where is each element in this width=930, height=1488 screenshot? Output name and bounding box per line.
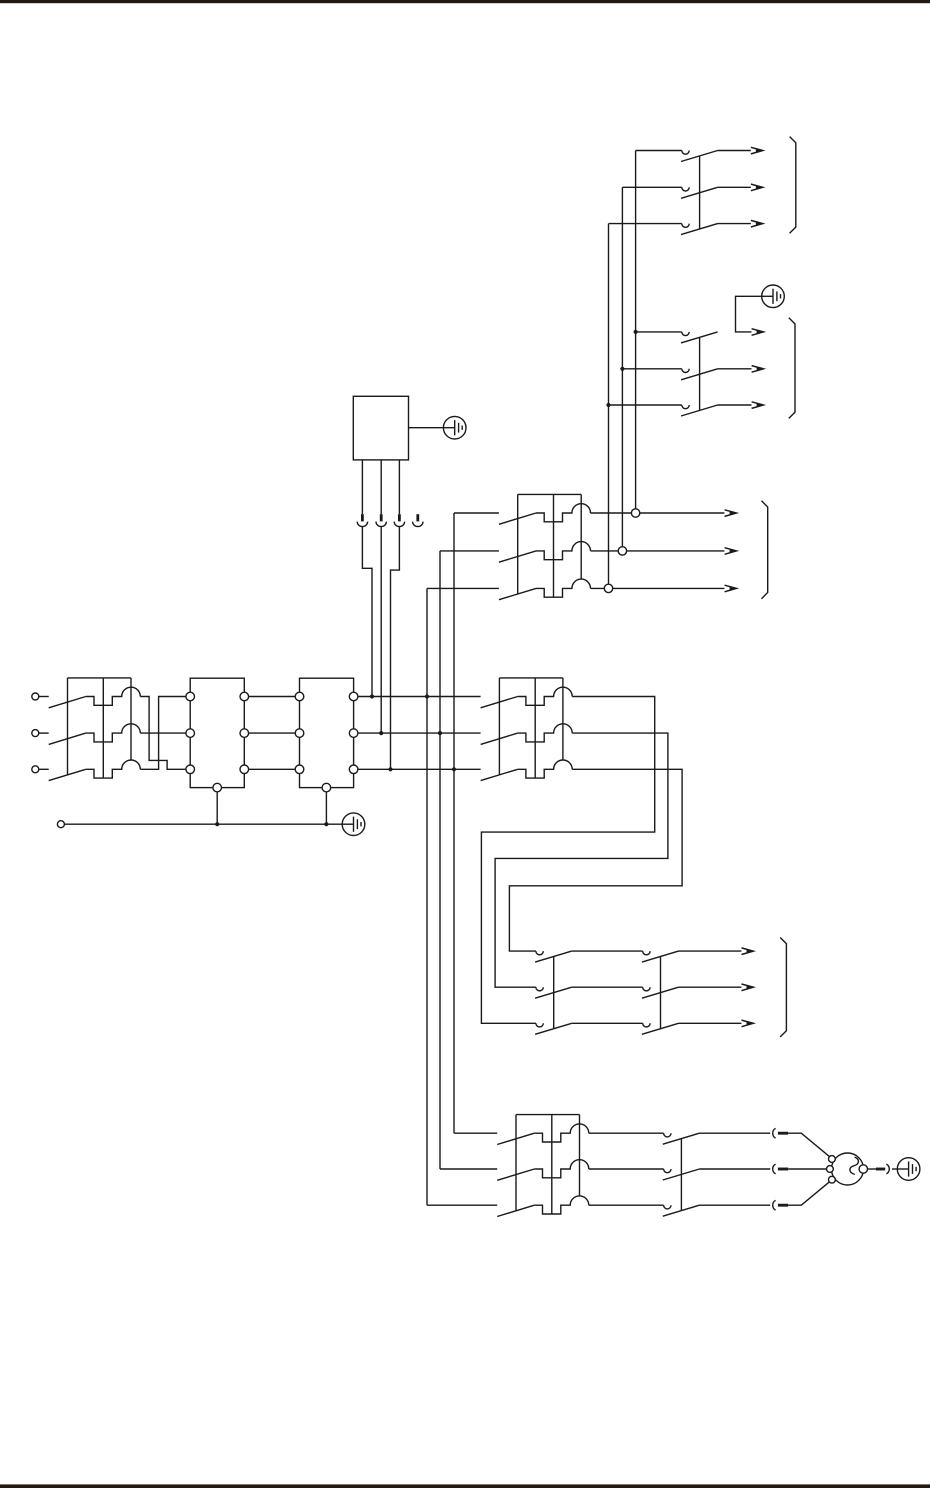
wire bus to S2 row 3	[609, 404, 682, 406]
wire Q1 pole3 to Z1 row1	[140, 697, 186, 770]
filter block Z2 body	[300, 678, 354, 787]
arrow S3 row 3	[742, 1020, 754, 1027]
filter Z2 left pin 2	[295, 729, 304, 738]
junction bus B / row2	[438, 731, 442, 735]
arrow F1 row 2	[725, 548, 737, 555]
connector X2 pin 3	[773, 1200, 788, 1210]
junction row2 / X1	[379, 731, 383, 735]
wire bus to S1 row 2	[622, 186, 681, 188]
fused switch F2 pole 2	[481, 724, 573, 745]
bracket feeder group 1	[790, 137, 796, 234]
motor M1 body	[832, 1153, 864, 1185]
fused switch F3 frame	[516, 1115, 580, 1214]
junction row3 / X1	[388, 767, 392, 771]
blade S2 row 1	[681, 332, 718, 343]
arrow S1 row 2	[751, 184, 763, 191]
fused switch F1 frame	[518, 494, 582, 597]
filter Z1 ground pin	[213, 783, 222, 792]
filter Z1 left pin 3	[186, 765, 195, 774]
wire S1 output row 2	[718, 186, 751, 188]
wire S3a to S3b row 1	[572, 950, 643, 952]
arrow S3 row 2	[742, 984, 754, 991]
contact S4 row 1	[664, 1133, 671, 1137]
junction bus C / row3	[452, 767, 456, 771]
fused switch F3 pole 1	[497, 1124, 589, 1145]
wire S1 output row 1	[718, 150, 751, 152]
motor M1 terminal U	[829, 1156, 836, 1163]
circuit breaker Q1 pole 2	[49, 724, 141, 745]
wire connector to motor W	[788, 1182, 829, 1206]
filter Z1 left pin 2	[186, 729, 195, 738]
node circle F1 row 1	[631, 509, 639, 517]
blade S4 row 2	[663, 1169, 700, 1180]
bus 2 vertical	[621, 187, 623, 546]
junction bus A / row1	[425, 694, 429, 698]
wire Z1 to Z2 row 1	[249, 696, 296, 698]
wire bus A to F1 row3	[427, 587, 499, 589]
bus A vertical	[426, 588, 428, 1205]
filter Z2 right pin 1	[349, 692, 358, 701]
connector X1 pin 4	[413, 514, 423, 526]
wire bus to S1 row 1	[636, 150, 682, 152]
wire bus C to F1 row1	[454, 512, 499, 514]
blade S2 row 3	[681, 405, 718, 416]
wire F1 output row 2	[591, 550, 725, 552]
gang bar S1	[699, 156, 701, 229]
wire F3 to S4 row 1	[589, 1132, 664, 1134]
wire F1 output row 3	[591, 587, 725, 589]
ground symbol E2	[443, 416, 466, 439]
wire A1 lead 3	[398, 460, 400, 514]
bus B vertical	[439, 551, 441, 1169]
fused switch F1 pole 1	[499, 504, 591, 525]
blade S3b row 3	[642, 1023, 679, 1034]
blade S3a row 3	[535, 1023, 572, 1034]
blade S2 row 2	[681, 369, 718, 380]
wire connector to motor U	[788, 1133, 829, 1157]
contact S1 row 3	[682, 224, 689, 228]
circuit breaker Q1 pole 3	[49, 760, 141, 781]
fused switch F2 pole 1	[481, 687, 573, 708]
blade S4 row 1	[663, 1133, 700, 1144]
junction bus / S2 row 1	[634, 330, 638, 334]
bus 3 vertical	[608, 224, 610, 585]
node circle F1 row 3	[604, 584, 612, 592]
wire connector to motor V	[788, 1168, 826, 1170]
input terminal L2	[32, 730, 49, 737]
connector X1 pin 3	[394, 514, 404, 526]
wire X3 to ground	[892, 1168, 897, 1170]
wire A1 lead 2	[380, 460, 382, 514]
arrow F1 row 1	[725, 510, 737, 517]
contact S4 row 2	[664, 1169, 671, 1173]
wire bus to S2 row 2	[622, 368, 681, 370]
wire bus B to F3 row2	[440, 1168, 497, 1170]
wire S4 to connector row 1	[699, 1132, 770, 1134]
bus C vertical	[453, 513, 455, 1133]
wire F2 row3 to S3 row1	[509, 769, 682, 951]
bracket feeder group 2	[789, 318, 795, 419]
contact S2 row 3	[682, 405, 689, 409]
arrow S1 row 1	[751, 147, 763, 154]
wire bus B to F1 row2	[440, 550, 499, 552]
gang bar S3b	[660, 957, 662, 1029]
wire F3 to S4 row 2	[589, 1168, 664, 1170]
node circle F1 row 2	[618, 547, 626, 555]
connector X3	[876, 1164, 889, 1174]
blade S1 row 2	[681, 187, 718, 198]
wire Q1 pole1 to Z1 row3	[140, 697, 186, 770]
connector X2 pin 2	[773, 1164, 788, 1174]
arrow S3 row 1	[742, 948, 754, 955]
wire S3a to S3b row 3	[572, 1022, 643, 1024]
wire F1 output row 1	[591, 512, 725, 514]
connector X1 pin 1	[357, 514, 367, 526]
wire X1 pin2 to row2 bus	[380, 527, 382, 734]
wire bus A to F3 row3	[427, 1204, 497, 1206]
input terminal L3	[32, 766, 49, 773]
wire A1 lead 1	[361, 460, 363, 514]
contact S4 row 3	[664, 1205, 671, 1209]
filter Z2 left pin 1	[295, 692, 304, 701]
junction bus / S2 row 2	[620, 367, 624, 371]
motor M1 terminal V	[827, 1166, 834, 1173]
contact S3a row 2	[536, 987, 543, 991]
wire bus to S2 row 1	[636, 331, 682, 333]
wire S3b output row 1	[679, 950, 742, 952]
filter Z1 right pin 3	[240, 765, 249, 774]
wire S4 to connector row 3	[699, 1204, 770, 1206]
circuit breaker Q1 pole 1	[49, 687, 141, 708]
wire Z2 ground pin to ground bus	[325, 792, 327, 824]
filter Z1 left pin 1	[186, 692, 195, 701]
wire X1 pin1 to row1 bus	[362, 527, 372, 697]
gang bar S3a	[553, 957, 555, 1029]
arrow S2 row 1	[752, 329, 764, 336]
wire F3 to S4 row 3	[589, 1204, 664, 1206]
gang bar S4	[680, 1139, 682, 1211]
fused switch F1 pole 2	[499, 542, 591, 563]
wire phase row 2	[358, 732, 481, 734]
motor M1 ground terminal	[859, 1165, 867, 1173]
fused switch F1 pole 3	[499, 579, 591, 600]
wire F2 row1 to S3 row3	[481, 697, 654, 1024]
blade S4 row 3	[663, 1205, 700, 1216]
blade S1 row 3	[681, 224, 718, 235]
bus 1 vertical	[635, 151, 637, 509]
ground symbol E4	[897, 1158, 920, 1181]
wire S2 output row 3	[718, 404, 752, 406]
contact S3a row 1	[536, 951, 543, 955]
junction Z1 ground	[215, 822, 219, 826]
control unit A1	[353, 396, 408, 460]
wire S2 output row 2	[718, 368, 752, 370]
gang bar S2	[699, 337, 701, 410]
page bottom rule	[0, 1484, 930, 1488]
contact S3b row 3	[643, 1023, 650, 1027]
filter block Z1 body	[190, 678, 244, 787]
arrow S2 row 2	[752, 366, 764, 373]
filter Z1 right pin 1	[240, 692, 249, 701]
blade S3a row 1	[535, 951, 572, 962]
contact S3b row 1	[643, 951, 650, 955]
ground symbol E3	[762, 285, 785, 308]
wire Z1 to Z2 row 3	[249, 768, 296, 770]
junction bus / S2 row 3	[606, 403, 610, 407]
contact S3a row 3	[536, 1023, 543, 1027]
fused switch F3 pole 2	[497, 1160, 589, 1181]
fused switch F2 frame	[499, 678, 563, 778]
circuit breaker Q1 frame	[68, 678, 132, 778]
filter Z2 right pin 2	[349, 729, 358, 738]
contact S2 row 1	[682, 332, 689, 336]
connector X1 pin 2	[376, 514, 386, 526]
contact S1 row 2	[682, 187, 689, 191]
blade S3b row 2	[642, 987, 679, 998]
filter Z2 left pin 3	[295, 765, 304, 774]
arrow S2 row 3	[752, 402, 764, 409]
wire S3a to S3b row 2	[572, 986, 643, 988]
wire S1 output row 3	[718, 223, 751, 225]
wire motor terminal to X3	[868, 1168, 877, 1170]
wire A1 to ground	[409, 427, 444, 429]
fused switch F3 pole 3	[497, 1196, 589, 1217]
wire Q1 pole2 to Z1 row2	[140, 732, 186, 734]
wire S3b output row 2	[679, 986, 742, 988]
page top rule	[0, 0, 930, 3]
motor M1 AC squiggle	[850, 1157, 859, 1174]
ground terminal PE	[57, 821, 64, 828]
wire Z1 ground pin to ground bus	[216, 792, 218, 824]
wire Z1 to Z2 row 2	[249, 732, 296, 734]
junction row1 / X1	[370, 694, 374, 698]
wire bus C to F3 row1	[454, 1132, 497, 1134]
motor M1 terminal W	[829, 1176, 836, 1183]
blade S3a row 2	[535, 987, 572, 998]
junction Z2 ground	[324, 822, 328, 826]
bracket feeder group 3	[762, 501, 768, 599]
wire F2 row2 to S3 row2	[495, 733, 668, 987]
wire bus to S1 row 3	[609, 223, 682, 225]
blade S3b row 1	[642, 951, 679, 962]
contact S2 row 2	[682, 369, 689, 373]
filter Z1 right pin 2	[240, 729, 249, 738]
wire phase row 1	[358, 696, 481, 698]
wire X1 pin3 to row3 bus	[391, 527, 400, 770]
wire S3b output row 3	[679, 1022, 742, 1024]
ground symbol E1	[342, 813, 365, 836]
wire S2 row1 to ground	[736, 296, 762, 332]
connector X2 pin 1	[773, 1128, 788, 1138]
arrow S1 row 3	[751, 220, 763, 227]
fused switch F2 pole 3	[481, 760, 573, 781]
blade S1 row 1	[681, 151, 718, 162]
filter Z2 ground pin	[322, 783, 331, 792]
wire phase row 3	[358, 768, 481, 770]
ground bus wire	[64, 823, 342, 825]
input terminal L1	[32, 693, 49, 700]
contact S1 row 1	[682, 151, 689, 155]
arrow F1 row 3	[725, 585, 737, 592]
bracket feeder group 4	[780, 938, 786, 1037]
contact S3b row 2	[643, 987, 650, 991]
wire S4 to connector row 2	[699, 1168, 770, 1170]
filter Z2 right pin 3	[349, 765, 358, 774]
